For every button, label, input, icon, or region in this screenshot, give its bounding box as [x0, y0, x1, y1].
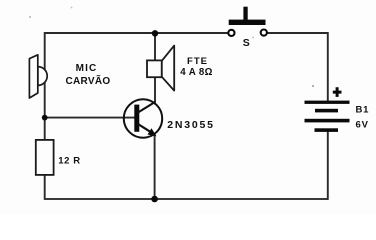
- wire emitter branch: [154, 133, 156, 199]
- svg-text:4 A 8Ω: 4 A 8Ω: [180, 67, 213, 78]
- wire bottom horizontal (bottom rail): [44, 198, 328, 200]
- transistor emitter diagonal: [138, 124, 153, 133]
- transistor Q1 2N3055: circle: [124, 99, 162, 137]
- transistor collector diagonal: [138, 102, 155, 113]
- battery B1: plate 3 long: [305, 119, 350, 123]
- node junction dot bottom (emitter tap): [151, 196, 158, 203]
- wire base branch: [45, 117, 136, 119]
- resistor R (12R) body: [36, 140, 54, 175]
- wire left vertical (mic branch): [44, 32, 46, 140]
- wire right vertical below battery: [327, 131, 329, 200]
- scan speckle 3: [312, 85, 314, 87]
- microphone MIC CARVAO symbol: dome: [38, 67, 47, 86]
- scan speckle 2: [71, 7, 73, 9]
- svg-text:CARVÃO: CARVÃO: [66, 74, 111, 87]
- svg-text:B1: B1: [356, 105, 370, 116]
- svg-text:FTE: FTE: [187, 56, 208, 67]
- svg-text:12 R: 12 R: [58, 155, 80, 166]
- wire left vertical below resistor: [44, 175, 46, 199]
- svg-text:2N3055: 2N3055: [167, 119, 215, 131]
- speaker FTE: driver rectangle: [147, 60, 162, 77]
- battery plus sign: [333, 87, 342, 97]
- switch S: right terminal: [261, 29, 267, 35]
- svg-text:MIC: MIC: [76, 63, 98, 74]
- wire top-right horizontal (top rail, right of switch): [267, 32, 327, 34]
- node junction dot top (speaker tap): [152, 30, 158, 36]
- scan speckle 1: [29, 16, 31, 18]
- node junction dot left (base tap): [42, 115, 48, 121]
- speaker FTE: cone: [162, 46, 174, 91]
- wire top-left horizontal (top rail, left of switch): [45, 32, 228, 34]
- battery B1: plate 1 long: [305, 101, 350, 104]
- battery B1: plate 4 short: [315, 128, 339, 132]
- wire right vertical above battery: [327, 32, 329, 102]
- transistor emitter arrowhead: [148, 128, 157, 136]
- scan speckle 4: [252, 37, 254, 39]
- switch S: plunger stem: [243, 7, 247, 20]
- transistor base bar: [134, 105, 139, 132]
- wire speaker branch (collector): [154, 33, 156, 103]
- switch S: plunger bar: [229, 20, 266, 25]
- switch S: left terminal: [228, 30, 234, 36]
- battery B1: plate 2 short: [315, 109, 338, 113]
- svg-text:S: S: [243, 37, 250, 49]
- svg-text:6V: 6V: [356, 119, 369, 130]
- microphone MIC CARVAO symbol: cone trapezoid: [29, 55, 37, 98]
